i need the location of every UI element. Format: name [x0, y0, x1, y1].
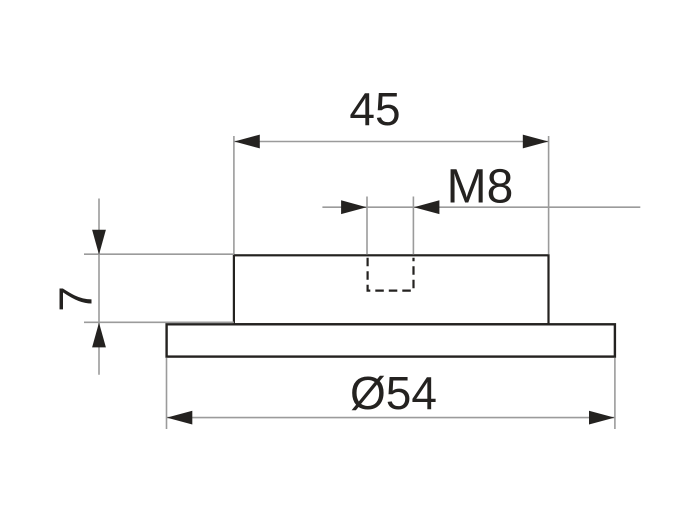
- leader line M8: [322, 206, 640, 208]
- svg-text:M8: M8: [447, 161, 514, 214]
- arrow 7 down: [92, 230, 106, 255]
- hidden hole M8 (dashed): [368, 258, 414, 291]
- arrow 45 left: [234, 135, 259, 149]
- extension line M8 left: [366, 197, 368, 255]
- arrow 45 right: [523, 135, 549, 149]
- extension line M8 right: [412, 197, 414, 255]
- extension line 7 bottom: [84, 321, 234, 323]
- svg-text:Ø54: Ø54: [350, 367, 437, 419]
- arrow M8 left (points right): [341, 200, 367, 214]
- extension line D54 right: [614, 358, 616, 429]
- extension line 45 left: [233, 136, 235, 254]
- svg-text:7: 7: [50, 286, 102, 312]
- part body: base plate: [167, 324, 615, 356]
- dimension line D54: [167, 417, 615, 419]
- arrow D54 left: [167, 411, 193, 425]
- dimension line 45: [234, 141, 548, 143]
- part body: top block: [234, 255, 549, 324]
- extension line 45 right: [548, 136, 550, 254]
- svg-text:45: 45: [349, 83, 400, 135]
- arrow D54 right: [589, 411, 615, 425]
- arrow 7 up: [92, 323, 106, 348]
- dimension line 7: [98, 199, 100, 375]
- extension line 7 top: [84, 253, 234, 255]
- extension line D54 left: [166, 358, 168, 429]
- arrow M8 right (points left): [414, 200, 440, 214]
